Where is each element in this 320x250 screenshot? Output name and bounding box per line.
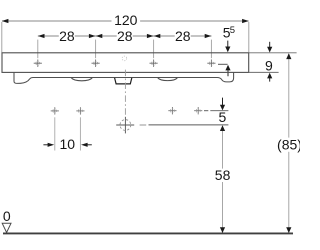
drain outlet tab bbox=[115, 78, 132, 84]
arrow 28a left bbox=[38, 34, 45, 38]
arrow 10 right bbox=[87, 144, 92, 146]
svg-text:28: 28 bbox=[117, 28, 133, 44]
tap hole axis line bbox=[218, 63, 228, 65]
svg-text:0: 0 bbox=[3, 208, 11, 224]
label 28a bbox=[59, 30, 75, 43]
dim line 28 row bbox=[38, 35, 212, 37]
label 28c bbox=[175, 30, 191, 43]
svg-text:10: 10 bbox=[60, 136, 76, 152]
label (85) bbox=[276, 138, 302, 152]
svg-text:28: 28 bbox=[59, 28, 75, 44]
drain axis long line bbox=[149, 124, 229, 126]
arrow 9 down bbox=[269, 42, 271, 47]
svg-text:120: 120 bbox=[114, 12, 138, 28]
arrow 120 left bbox=[2, 19, 9, 23]
dim 9 top ref line bbox=[249, 52, 297, 54]
siphon mark right 1 bbox=[168, 107, 176, 114]
svg-text:9: 9 bbox=[265, 57, 273, 73]
tap hole mark 3 bbox=[150, 60, 158, 67]
dim 10 ext line right bbox=[79, 117, 81, 150]
dim 9 bottom ref line bbox=[249, 71, 279, 73]
floor line bbox=[3, 232, 293, 234]
arrow 85 up bbox=[286, 53, 291, 59]
arrow 120 right bbox=[242, 19, 249, 23]
label 120 bbox=[112, 14, 141, 27]
svg-text:5: 5 bbox=[230, 25, 235, 36]
siphon mark left 2 bbox=[76, 107, 84, 114]
svg-text:5: 5 bbox=[219, 109, 227, 125]
dim 5 upper ref line bbox=[210, 110, 228, 112]
arrow 28a right bbox=[89, 34, 96, 38]
svg-text:(85): (85) bbox=[277, 137, 300, 153]
tap hole mark 4 bbox=[207, 60, 215, 67]
drain position mark bbox=[116, 117, 134, 134]
ext line hole1 bbox=[37, 40, 39, 59]
label 58 bbox=[214, 169, 231, 182]
arrow 5 down bbox=[222, 98, 224, 106]
label 28b bbox=[117, 30, 133, 43]
arrow 28b left bbox=[96, 34, 103, 38]
siphon mark right 2 bbox=[194, 107, 202, 114]
arrow 9 up bbox=[269, 78, 271, 82]
siphon mark left 1 bbox=[51, 107, 59, 114]
arrow 85 down bbox=[286, 227, 291, 233]
tap hole mark 2 bbox=[92, 60, 100, 67]
ext line left of 120 bbox=[1, 22, 3, 52]
overflow dashed circle bbox=[122, 56, 127, 61]
bowl bump right bbox=[158, 78, 178, 81]
dim 58 line bbox=[222, 126, 224, 232]
underside outline with left wall and right trap hook bbox=[14, 72, 234, 83]
arrow 58 down bbox=[220, 227, 225, 233]
centre dash-dot line bbox=[124, 70, 126, 117]
ext line hole4 bbox=[210, 40, 212, 59]
ext line hole3 bbox=[153, 40, 155, 59]
arrow 5^5 down bbox=[227, 41, 229, 47]
arrow 28c right bbox=[205, 34, 212, 38]
arrow 10 left bbox=[43, 144, 48, 146]
dim 10 ext line left bbox=[54, 117, 56, 150]
arrow 58 up bbox=[220, 125, 225, 131]
dim 5 upper ref dash bbox=[204, 110, 208, 112]
bowl bump left bbox=[71, 78, 93, 81]
tap hole mark 1 bbox=[34, 60, 42, 67]
svg-text:28: 28 bbox=[175, 28, 191, 44]
arrow 28b right bbox=[147, 34, 154, 38]
arrow 28c left bbox=[154, 34, 161, 38]
arrow 5^5 up bbox=[227, 70, 229, 76]
basin rim rectangle bbox=[2, 53, 249, 73]
dim line 120 bbox=[2, 20, 249, 22]
dim 85 line bbox=[288, 54, 290, 233]
ext line hole2 bbox=[95, 40, 97, 59]
svg-text:58: 58 bbox=[215, 167, 231, 183]
datum triangle bbox=[2, 223, 11, 232]
drain axis dash bbox=[140, 124, 147, 126]
ext line right of 120 bbox=[248, 22, 250, 52]
